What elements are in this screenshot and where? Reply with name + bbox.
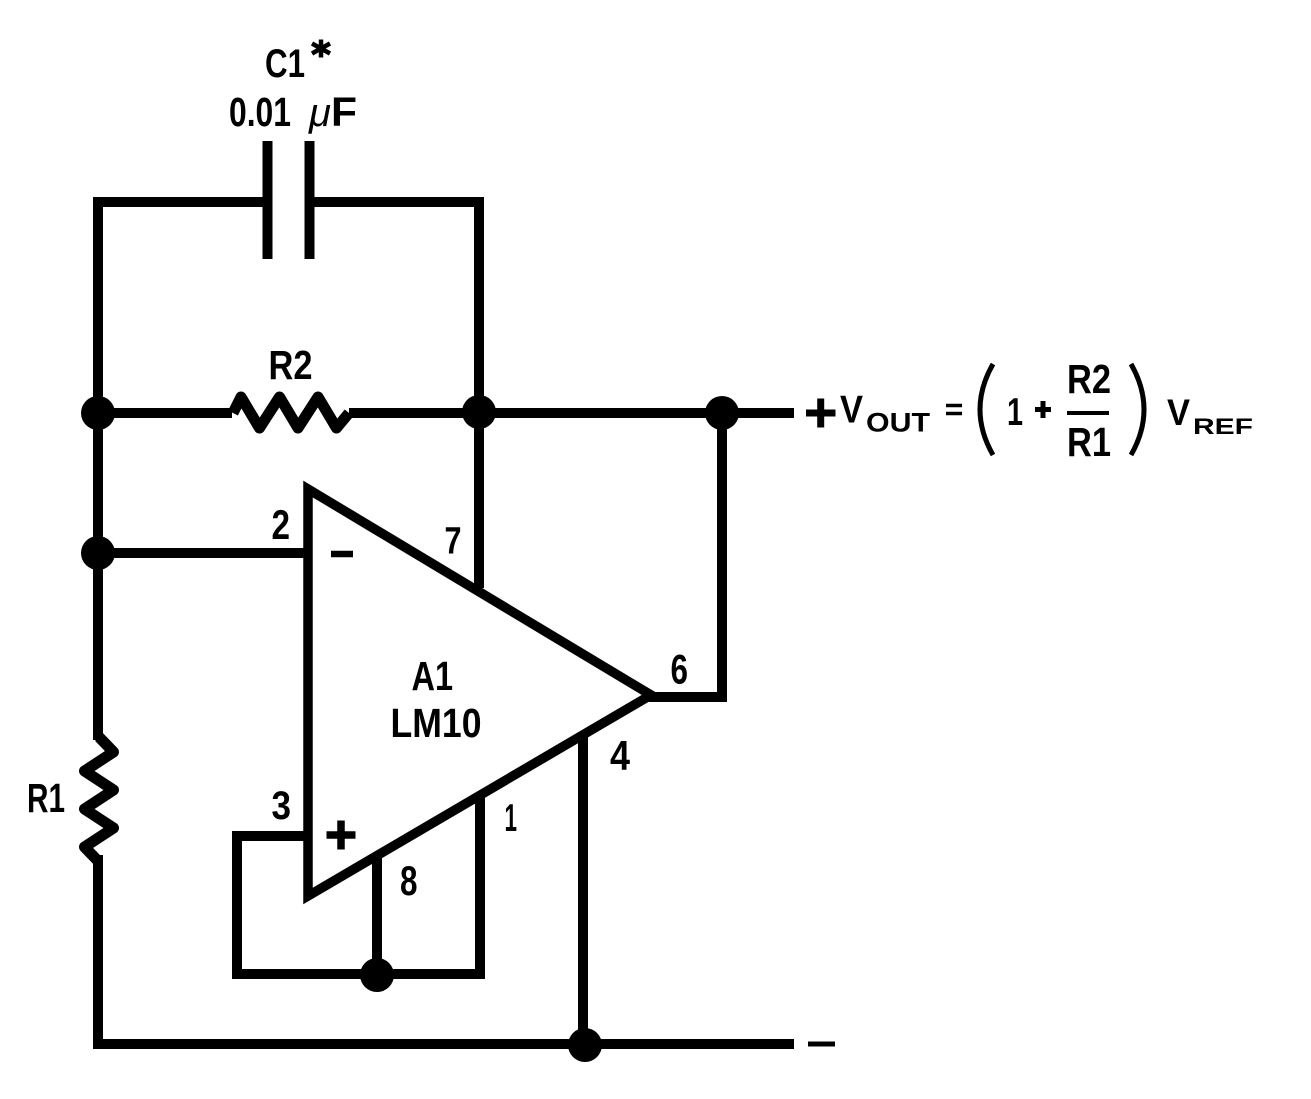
equals sign	[946, 406, 962, 414]
node Vout junction	[705, 396, 739, 430]
asterisk on C1	[312, 40, 330, 58]
svg-text:OUT: OUT	[866, 408, 931, 438]
svg-text:1: 1	[1007, 391, 1023, 434]
svg-text:7: 7	[445, 521, 462, 563]
wire bottom-left L (left rail down and bottom line)	[98, 855, 794, 1044]
svg-text:C1: C1	[265, 42, 305, 86]
node pin 2 junction	[81, 536, 115, 570]
resistor R2	[233, 397, 349, 428]
svg-text:1: 1	[505, 797, 518, 840]
right parenthesis	[1131, 364, 1144, 455]
formula plus	[1035, 401, 1051, 418]
svg-text:LM10: LM10	[391, 700, 482, 746]
wire pin 2 input	[98, 548, 304, 558]
svg-text:V: V	[840, 389, 863, 432]
wire output from pin 6 (right then up to Vout node)	[649, 413, 722, 697]
svg-text:μ: μ	[308, 91, 331, 135]
fraction bar	[1067, 411, 1109, 415]
output plus sign	[806, 399, 836, 428]
svg-text:R2: R2	[269, 342, 313, 388]
svg-text:3: 3	[272, 784, 292, 828]
wire pin 8 drop	[372, 858, 382, 974]
svg-text:4: 4	[610, 732, 630, 779]
svg-text:R1: R1	[27, 775, 65, 821]
wire top-left L (from C1 left plate to left rail corner)	[98, 202, 263, 740]
minus sign (inverting input)	[331, 551, 353, 558]
wire R2 row right (to output stub end)	[349, 408, 794, 418]
resistor R1	[85, 737, 114, 862]
svg-text:8: 8	[400, 857, 418, 904]
node pin 4 junction	[568, 1028, 602, 1062]
node R2 right junction	[462, 395, 496, 429]
minus terminal dash	[808, 1042, 835, 1047]
wire pin 4 drop	[578, 736, 588, 1044]
node pin 8 junction	[360, 958, 394, 992]
svg-text:REF: REF	[1193, 414, 1253, 439]
svg-text:V: V	[1167, 392, 1190, 433]
capacitor C1 right plate	[305, 141, 315, 259]
op-amp A1 triangle	[308, 489, 651, 896]
wire R2 row left stub	[98, 408, 232, 418]
svg-text:6: 6	[671, 646, 689, 693]
wire top-right path (C1 right plate to pin7, through R2 right node)	[314, 202, 479, 588]
svg-text:F: F	[331, 89, 357, 135]
wire pin 3 feedback box (pin3 left, down, bottom, pin1 up)	[237, 796, 480, 974]
left parenthesis	[980, 364, 993, 455]
capacitor C1 left plate	[263, 141, 273, 259]
svg-text:R1: R1	[1067, 419, 1111, 465]
svg-text:R2: R2	[1067, 356, 1111, 402]
svg-text:0.01: 0.01	[229, 89, 291, 135]
plus sign (non-inverting input)	[327, 821, 356, 850]
svg-text:2: 2	[272, 501, 291, 548]
svg-text:A1: A1	[412, 653, 454, 699]
node R2 left junction	[81, 396, 115, 430]
